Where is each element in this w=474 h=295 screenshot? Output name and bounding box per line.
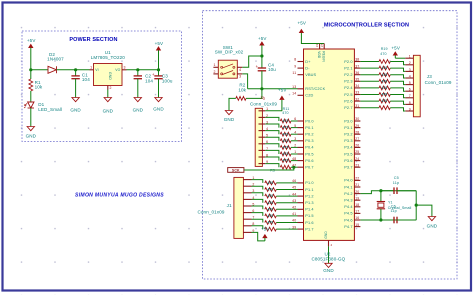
resistor R13 470 (P2.6)	[379, 99, 390, 103]
wire resistor to MCU P0.6	[291, 160, 298, 162]
pin 25 P3.5	[354, 153, 360, 155]
svg-text:4: 4	[331, 243, 333, 247]
svg-text:P3.1: P3.1	[344, 126, 352, 130]
svg-text:P4.0: P4.0	[344, 179, 352, 183]
svg-text:470: 470	[381, 93, 387, 97]
node C3 junction	[157, 68, 160, 71]
wire P2.4 to resistor	[360, 87, 379, 89]
svg-text:2: 2	[409, 61, 411, 65]
svg-text:11p: 11p	[393, 181, 399, 185]
svg-text:31: 31	[315, 43, 319, 47]
wire resistor to J3 pin7	[390, 95, 405, 98]
svg-text:VO: VO	[115, 68, 120, 72]
svg-text:29: 29	[355, 124, 359, 128]
svg-text:P2.7: P2.7	[344, 106, 352, 110]
wire resistor to J3 pin5	[390, 81, 405, 84]
wire J1 pin3 to resistor	[252, 193, 263, 196]
wire resistor to MCU P0.5	[291, 153, 298, 155]
wire P2.0 to resistor	[360, 61, 379, 63]
resistor R11 470 (P0.0)	[280, 119, 291, 123]
svg-text:4: 4	[239, 68, 241, 72]
pin 45 P1.1	[298, 189, 304, 191]
global label SCK	[228, 168, 244, 173]
pin 2 P0.4	[298, 146, 304, 148]
pin 20 P4.2	[354, 193, 360, 195]
wire crystal right leg	[415, 191, 417, 220]
svg-text:MICROCONTROLLER SECTION: MICROCONTROLLER SECTION	[324, 22, 409, 28]
wire resistor to MCU P0.2	[291, 133, 298, 135]
wire resistor to J3 pin6	[390, 88, 405, 91]
svg-text:16: 16	[355, 216, 359, 220]
pin 43 P1.3	[298, 202, 304, 204]
resistor R27 470 (P1.7)	[265, 227, 277, 231]
ground (crystal)	[428, 217, 435, 221]
wire resistor to MCU P0.0	[291, 120, 298, 122]
pin 47 P0.7	[298, 166, 304, 168]
pin 44 P1.2	[298, 195, 304, 197]
pin 22 P4.0	[354, 179, 360, 181]
svg-text:470: 470	[282, 111, 288, 115]
pin 19 P4.3	[354, 199, 360, 201]
pin 4 J1	[243, 198, 251, 200]
svg-text:POWER SECTION: POWER SECTION	[69, 37, 117, 43]
pin 7 J3	[405, 97, 413, 99]
svg-text:470: 470	[267, 188, 273, 192]
wire P2.2 to resistor	[360, 74, 379, 76]
svg-text:P3.5: P3.5	[344, 152, 352, 156]
svg-text:C8051F380-GQ: C8051F380-GQ	[312, 257, 346, 262]
svg-text:RST/C2CK: RST/C2CK	[305, 87, 325, 91]
svg-text:20: 20	[355, 190, 359, 194]
svg-text:+: +	[256, 64, 259, 69]
wire P4.6 to crystal bottom rail	[360, 219, 416, 221]
pin 30 P3.0	[354, 120, 360, 122]
svg-text:100u: 100u	[162, 78, 173, 83]
power flag +5V (J3)	[393, 52, 397, 55]
resistor R22 470 (P1.2)	[265, 194, 277, 198]
pin 1 VI	[90, 69, 94, 71]
wire J1 pin5 to resistor	[252, 206, 263, 209]
svg-text:2: 2	[214, 70, 216, 74]
svg-text:R3: R3	[270, 169, 275, 173]
pin 33 P2.5	[354, 94, 360, 96]
svg-text:36: 36	[355, 71, 359, 75]
pin 4 GND (bottom)	[328, 240, 330, 246]
power flag +5V (input)	[29, 44, 33, 47]
wire J2 pin2 to resistor	[265, 117, 279, 121]
switch SW1 SW_DIP_x02	[218, 60, 237, 78]
svg-text:GND: GND	[70, 108, 81, 113]
svg-text:P3.0: P3.0	[344, 119, 352, 123]
power flag +5V (C4 net)	[260, 42, 264, 45]
pin 17 P4.5	[354, 212, 360, 214]
resistor R17 470 (P2.2)	[379, 73, 390, 77]
svg-text:25: 25	[355, 150, 359, 154]
ground (LED leg)	[27, 127, 34, 131]
svg-text:470: 470	[283, 132, 289, 136]
pin 13 RST/C2CK	[298, 88, 304, 90]
svg-text:23: 23	[355, 163, 359, 167]
node C2 junction	[136, 68, 139, 71]
pin 35 P2.3	[354, 80, 360, 82]
wire J2 pin8 to resistor	[265, 157, 279, 161]
svg-text:24: 24	[355, 157, 359, 161]
svg-text:8: 8	[409, 101, 411, 105]
svg-text:470: 470	[283, 119, 289, 123]
wire SW1 pin4 up to +5V net	[242, 56, 262, 67]
pin 3 J1	[243, 192, 251, 194]
wire P2.6 to resistor	[360, 100, 379, 102]
svg-text:REGIN: REGIN	[322, 51, 326, 62]
svg-text:P1.7: P1.7	[305, 227, 313, 231]
svg-text:Conn_01x09: Conn_01x09	[250, 102, 277, 107]
svg-text:6: 6	[409, 88, 411, 92]
svg-text:31: 31	[355, 104, 359, 108]
pin 4 P0.2	[298, 133, 304, 135]
svg-text:LM7805_TO220: LM7805_TO220	[91, 55, 126, 60]
svg-text:Conn_01x09: Conn_01x09	[425, 80, 452, 85]
svg-text:Conn_01x09: Conn_01x09	[198, 210, 225, 215]
svg-text:15: 15	[355, 223, 359, 227]
resistor R10 470 (P0.1)	[280, 126, 291, 130]
svg-text:470: 470	[380, 52, 386, 56]
svg-text:10k: 10k	[238, 87, 246, 92]
svg-text:14: 14	[292, 92, 296, 96]
svg-text:470: 470	[267, 194, 273, 198]
svg-text:GND: GND	[224, 117, 235, 122]
svg-text:470: 470	[381, 73, 387, 77]
capacitor C1 104	[75, 70, 77, 76]
svg-text:22: 22	[355, 177, 359, 181]
svg-text:P0.5: P0.5	[305, 152, 313, 156]
wire resistor to MCU P0.4	[291, 146, 298, 148]
node C1 junction	[74, 68, 77, 71]
wire P2.5 to resistor	[360, 94, 379, 96]
pin 46 P1.0	[298, 182, 304, 184]
wire resistor to MCU P0.3	[291, 140, 298, 142]
power flag +5V (output)	[156, 47, 160, 50]
pin 14 C2D	[298, 94, 304, 96]
wire J1 pin6 to resistor	[252, 213, 263, 216]
svg-text:GND: GND	[427, 223, 438, 228]
svg-text:10k: 10k	[35, 85, 43, 90]
svg-text:P3.4: P3.4	[344, 146, 353, 150]
svg-text:P2.0: P2.0	[344, 60, 352, 64]
pin 40 P1.6	[298, 222, 304, 224]
resistor R5 470 (P0.6)	[280, 159, 291, 163]
pin 5 J2	[259, 136, 266, 138]
node crystal top	[379, 189, 382, 192]
pin 29 P3.1	[354, 127, 360, 129]
pin 2 GND	[107, 86, 109, 90]
resistor R8 470 (P0.3)	[280, 139, 291, 143]
svg-text:470: 470	[381, 79, 387, 83]
svg-text:SCK: SCK	[232, 169, 240, 173]
wire J1 pin2 to resistor	[252, 186, 263, 189]
resistor R19 470 (P2.0)	[379, 60, 390, 64]
svg-text:3: 3	[294, 137, 296, 141]
svg-text:GND: GND	[323, 268, 334, 273]
wire resistor to MCU P0.7	[291, 166, 298, 168]
wire J2 pin1 to +5V	[265, 100, 282, 111]
wire J1 pin9 to +5V	[252, 232, 265, 241]
resistor R7 470 (P0.4)	[280, 146, 291, 150]
wire resistor to MCU P1.6	[276, 222, 297, 224]
resistor R24 470 (P1.4)	[265, 207, 277, 211]
svg-text:P4.3: P4.3	[344, 199, 352, 203]
svg-text:5: 5	[294, 124, 296, 128]
svg-text:P0.6: P0.6	[305, 159, 313, 163]
pin 1 J1	[243, 179, 251, 181]
svg-text:470: 470	[267, 221, 273, 225]
pin 34 P2.4	[354, 87, 360, 89]
pin 4 J3	[405, 77, 413, 79]
svg-text:470: 470	[381, 99, 387, 103]
pin 3 J3	[405, 70, 413, 72]
svg-text:P1.4: P1.4	[305, 208, 314, 212]
resistor R12 470 (P2.7)	[379, 106, 390, 110]
svg-text:P0.2: P0.2	[305, 133, 313, 137]
svg-text:P1.2: P1.2	[305, 194, 313, 198]
wire P2.7 to resistor	[360, 107, 379, 109]
pin 41 P1.5	[298, 215, 304, 217]
wire resistor to J3 pin8	[390, 101, 405, 104]
svg-text:P3.6: P3.6	[344, 159, 352, 163]
pin 1 J3	[405, 57, 413, 59]
ground (C2)	[134, 98, 141, 102]
wire diode to U1 VI	[57, 69, 90, 71]
svg-text:LED_Small: LED_Small	[38, 107, 62, 112]
pin 26 P3.4	[354, 146, 360, 148]
pin 5 P0.1	[298, 127, 304, 129]
pin 4 J2	[259, 130, 266, 132]
pin 18 P4.4	[354, 206, 360, 208]
svg-text:P0.3: P0.3	[305, 139, 313, 143]
svg-text:34: 34	[355, 84, 359, 88]
svg-text:9: 9	[409, 107, 411, 111]
svg-text:VBUS: VBUS	[305, 73, 316, 77]
wire U1 pin2 to ground	[107, 90, 109, 98]
ground (R2)	[225, 111, 232, 115]
svg-text:GND: GND	[103, 109, 114, 114]
svg-text:470: 470	[267, 214, 273, 218]
power flag +5V (J2)	[280, 96, 284, 99]
svg-text:P2.1: P2.1	[344, 66, 352, 70]
svg-text:C5: C5	[394, 176, 399, 180]
pin 1 J2	[259, 110, 266, 112]
wire U1 VO to +5V rail	[127, 69, 159, 71]
svg-text:470: 470	[283, 139, 289, 143]
svg-text:GND: GND	[108, 72, 112, 80]
pin 1 SW1	[213, 66, 218, 68]
crystal Y1 Crystal_Small	[380, 191, 382, 202]
capacitor C2 104	[137, 70, 139, 76]
wire +5V to VDD/REGIN	[301, 33, 324, 44]
svg-text:P0.0: P0.0	[305, 119, 313, 123]
wire to crystal ground	[416, 205, 432, 216]
svg-text:P2.4: P2.4	[344, 86, 353, 90]
svg-text:10u: 10u	[268, 67, 276, 72]
wire GND pin down	[328, 246, 330, 263]
svg-text:37: 37	[355, 64, 359, 68]
pin 9 J1	[243, 231, 251, 233]
svg-text:27: 27	[355, 137, 359, 141]
resistor R3 470 (P0.7)	[280, 165, 291, 169]
svg-text:19: 19	[355, 196, 359, 200]
svg-text:11: 11	[292, 71, 296, 75]
pin 39 P1.7	[298, 228, 304, 230]
wire global label to P0.7 net	[244, 167, 294, 170]
pin 36 P2.2	[354, 74, 360, 76]
svg-text:3: 3	[409, 68, 411, 72]
svg-text:GND: GND	[26, 134, 37, 139]
ground (MCU)	[325, 263, 332, 267]
pin 9 J2	[259, 163, 266, 165]
svg-text:J1: J1	[227, 203, 232, 208]
pin 5 J1	[243, 205, 251, 207]
svg-text:104: 104	[82, 77, 90, 82]
node input junction	[29, 68, 32, 71]
resistor R26 470 (P1.6)	[265, 221, 277, 225]
wire P2.3 to resistor	[360, 80, 379, 82]
svg-text:44: 44	[292, 192, 296, 196]
resistor R9 470 (P0.2)	[280, 132, 291, 136]
svg-text:1: 1	[409, 55, 411, 59]
resistor R15 470 (P2.4)	[379, 86, 390, 90]
op-amp U2 C8051F380 MCU body	[304, 49, 355, 240]
wire J1 pin1 to resistor	[252, 180, 263, 183]
pin 16 P4.6	[354, 219, 360, 221]
svg-text:+5V: +5V	[27, 38, 36, 43]
wire resistor to J3 pin4	[390, 75, 405, 78]
svg-text:C2D: C2D	[305, 94, 313, 98]
svg-text:P3.7: P3.7	[344, 166, 352, 170]
ground (U1)	[104, 98, 111, 102]
wire resistor to MCU P1.0	[276, 182, 297, 184]
wire J2 pin7 to resistor	[265, 150, 279, 154]
power flag +5V (J1)	[263, 235, 267, 238]
pin 28 P3.2	[354, 133, 360, 135]
node RST junction	[260, 87, 263, 90]
svg-text:P4.5: P4.5	[344, 212, 352, 216]
svg-text:1: 1	[214, 63, 216, 67]
svg-text:6: 6	[294, 117, 296, 121]
svg-text:1: 1	[90, 65, 92, 69]
svg-text:VI: VI	[95, 68, 98, 72]
svg-text:R19: R19	[381, 47, 388, 51]
svg-text:46: 46	[292, 179, 296, 183]
svg-text:+5V: +5V	[298, 20, 307, 25]
svg-text:40: 40	[292, 219, 296, 223]
svg-text:104: 104	[145, 78, 153, 83]
wire J2 pin3 to resistor	[265, 124, 279, 128]
svg-text:P2.3: P2.3	[344, 80, 352, 84]
capacitor C3 100u polarized	[158, 70, 160, 76]
svg-text:21: 21	[355, 183, 359, 187]
ground (C1)	[72, 98, 79, 102]
svg-text:37: 37	[320, 43, 324, 47]
svg-text:470: 470	[267, 201, 273, 205]
svg-text:2: 2	[110, 86, 112, 90]
svg-text:41: 41	[292, 212, 296, 216]
pin 2 J3	[405, 64, 413, 66]
svg-text:P4.4: P4.4	[344, 205, 353, 209]
svg-text:GND: GND	[153, 107, 164, 112]
wire LED to ground	[30, 108, 32, 127]
connector J2 Conn_01x09	[255, 108, 262, 166]
svg-text:+: +	[152, 72, 155, 77]
svg-text:C6: C6	[391, 204, 396, 208]
pin 6 P0.0	[298, 120, 304, 122]
pin 7 J2	[259, 149, 266, 151]
svg-text:470: 470	[267, 181, 273, 185]
svg-text:GND: GND	[133, 108, 144, 113]
svg-text:SIMON MUNYUA MUGO DESIGNS: SIMON MUNYUA MUGO DESIGNS	[75, 193, 164, 199]
svg-text:P1.1: P1.1	[305, 188, 313, 192]
svg-text:470: 470	[381, 66, 387, 70]
pin 15 P4.7	[354, 226, 360, 228]
pin 37 P2.1	[354, 67, 360, 69]
resistor R2 10k	[246, 89, 262, 99]
power section box	[22, 31, 182, 142]
svg-text:P1.5: P1.5	[305, 214, 313, 218]
svg-text:13: 13	[292, 85, 296, 89]
svg-text:470: 470	[267, 207, 273, 211]
wire P2.1 to resistor	[360, 67, 379, 69]
wire resistor to MCU P1.5	[276, 215, 297, 217]
pin 38 P2.0	[354, 61, 360, 63]
svg-text:3: 3	[239, 75, 241, 79]
pin 6 J3	[405, 90, 413, 92]
svg-text:9: 9	[294, 64, 296, 68]
ground (C3)	[155, 98, 162, 102]
svg-text:4: 4	[294, 130, 296, 134]
svg-text:+5V: +5V	[261, 227, 270, 232]
svg-text:J2: J2	[260, 96, 264, 100]
node C4 top junction	[260, 54, 263, 57]
wire resistor to MCU P1.4	[276, 208, 297, 210]
pin 6 J2	[259, 143, 266, 145]
power flag +5V (MCU VDD)	[299, 29, 303, 32]
pin 4 SW1	[237, 66, 242, 68]
pin VDD (top)	[319, 44, 321, 50]
node crystal mid	[415, 204, 418, 207]
svg-text:28: 28	[355, 130, 359, 134]
pin 11 VBUS	[298, 74, 304, 76]
wire resistor to MCU P1.2	[276, 195, 297, 197]
svg-text:SW_DIP_x02: SW_DIP_x02	[215, 50, 244, 55]
svg-text:P3.3: P3.3	[344, 139, 352, 143]
svg-text:P0.7: P0.7	[305, 166, 313, 170]
pin 23 P3.7	[354, 166, 360, 168]
node P0.7 junction	[292, 166, 295, 169]
wire J2 pin4 to resistor	[265, 131, 279, 135]
pin 27 P3.3	[354, 140, 360, 142]
resistor R1 10k	[30, 70, 32, 79]
svg-text:P4.7: P4.7	[344, 225, 352, 229]
svg-text:P2.6: P2.6	[344, 99, 352, 103]
pin 3 SW1	[237, 73, 242, 75]
svg-text:+5V: +5V	[278, 88, 287, 93]
wire resistor to J3 pin9	[390, 108, 405, 111]
pin 3 VO	[122, 69, 127, 71]
resistor R16 470 (P2.3)	[379, 79, 390, 83]
svg-text:VDD: VDD	[317, 51, 321, 59]
svg-text:+5V: +5V	[391, 46, 400, 51]
svg-text:1N4007: 1N4007	[47, 56, 64, 61]
svg-text:470: 470	[381, 86, 387, 90]
svg-text:26: 26	[355, 144, 359, 148]
